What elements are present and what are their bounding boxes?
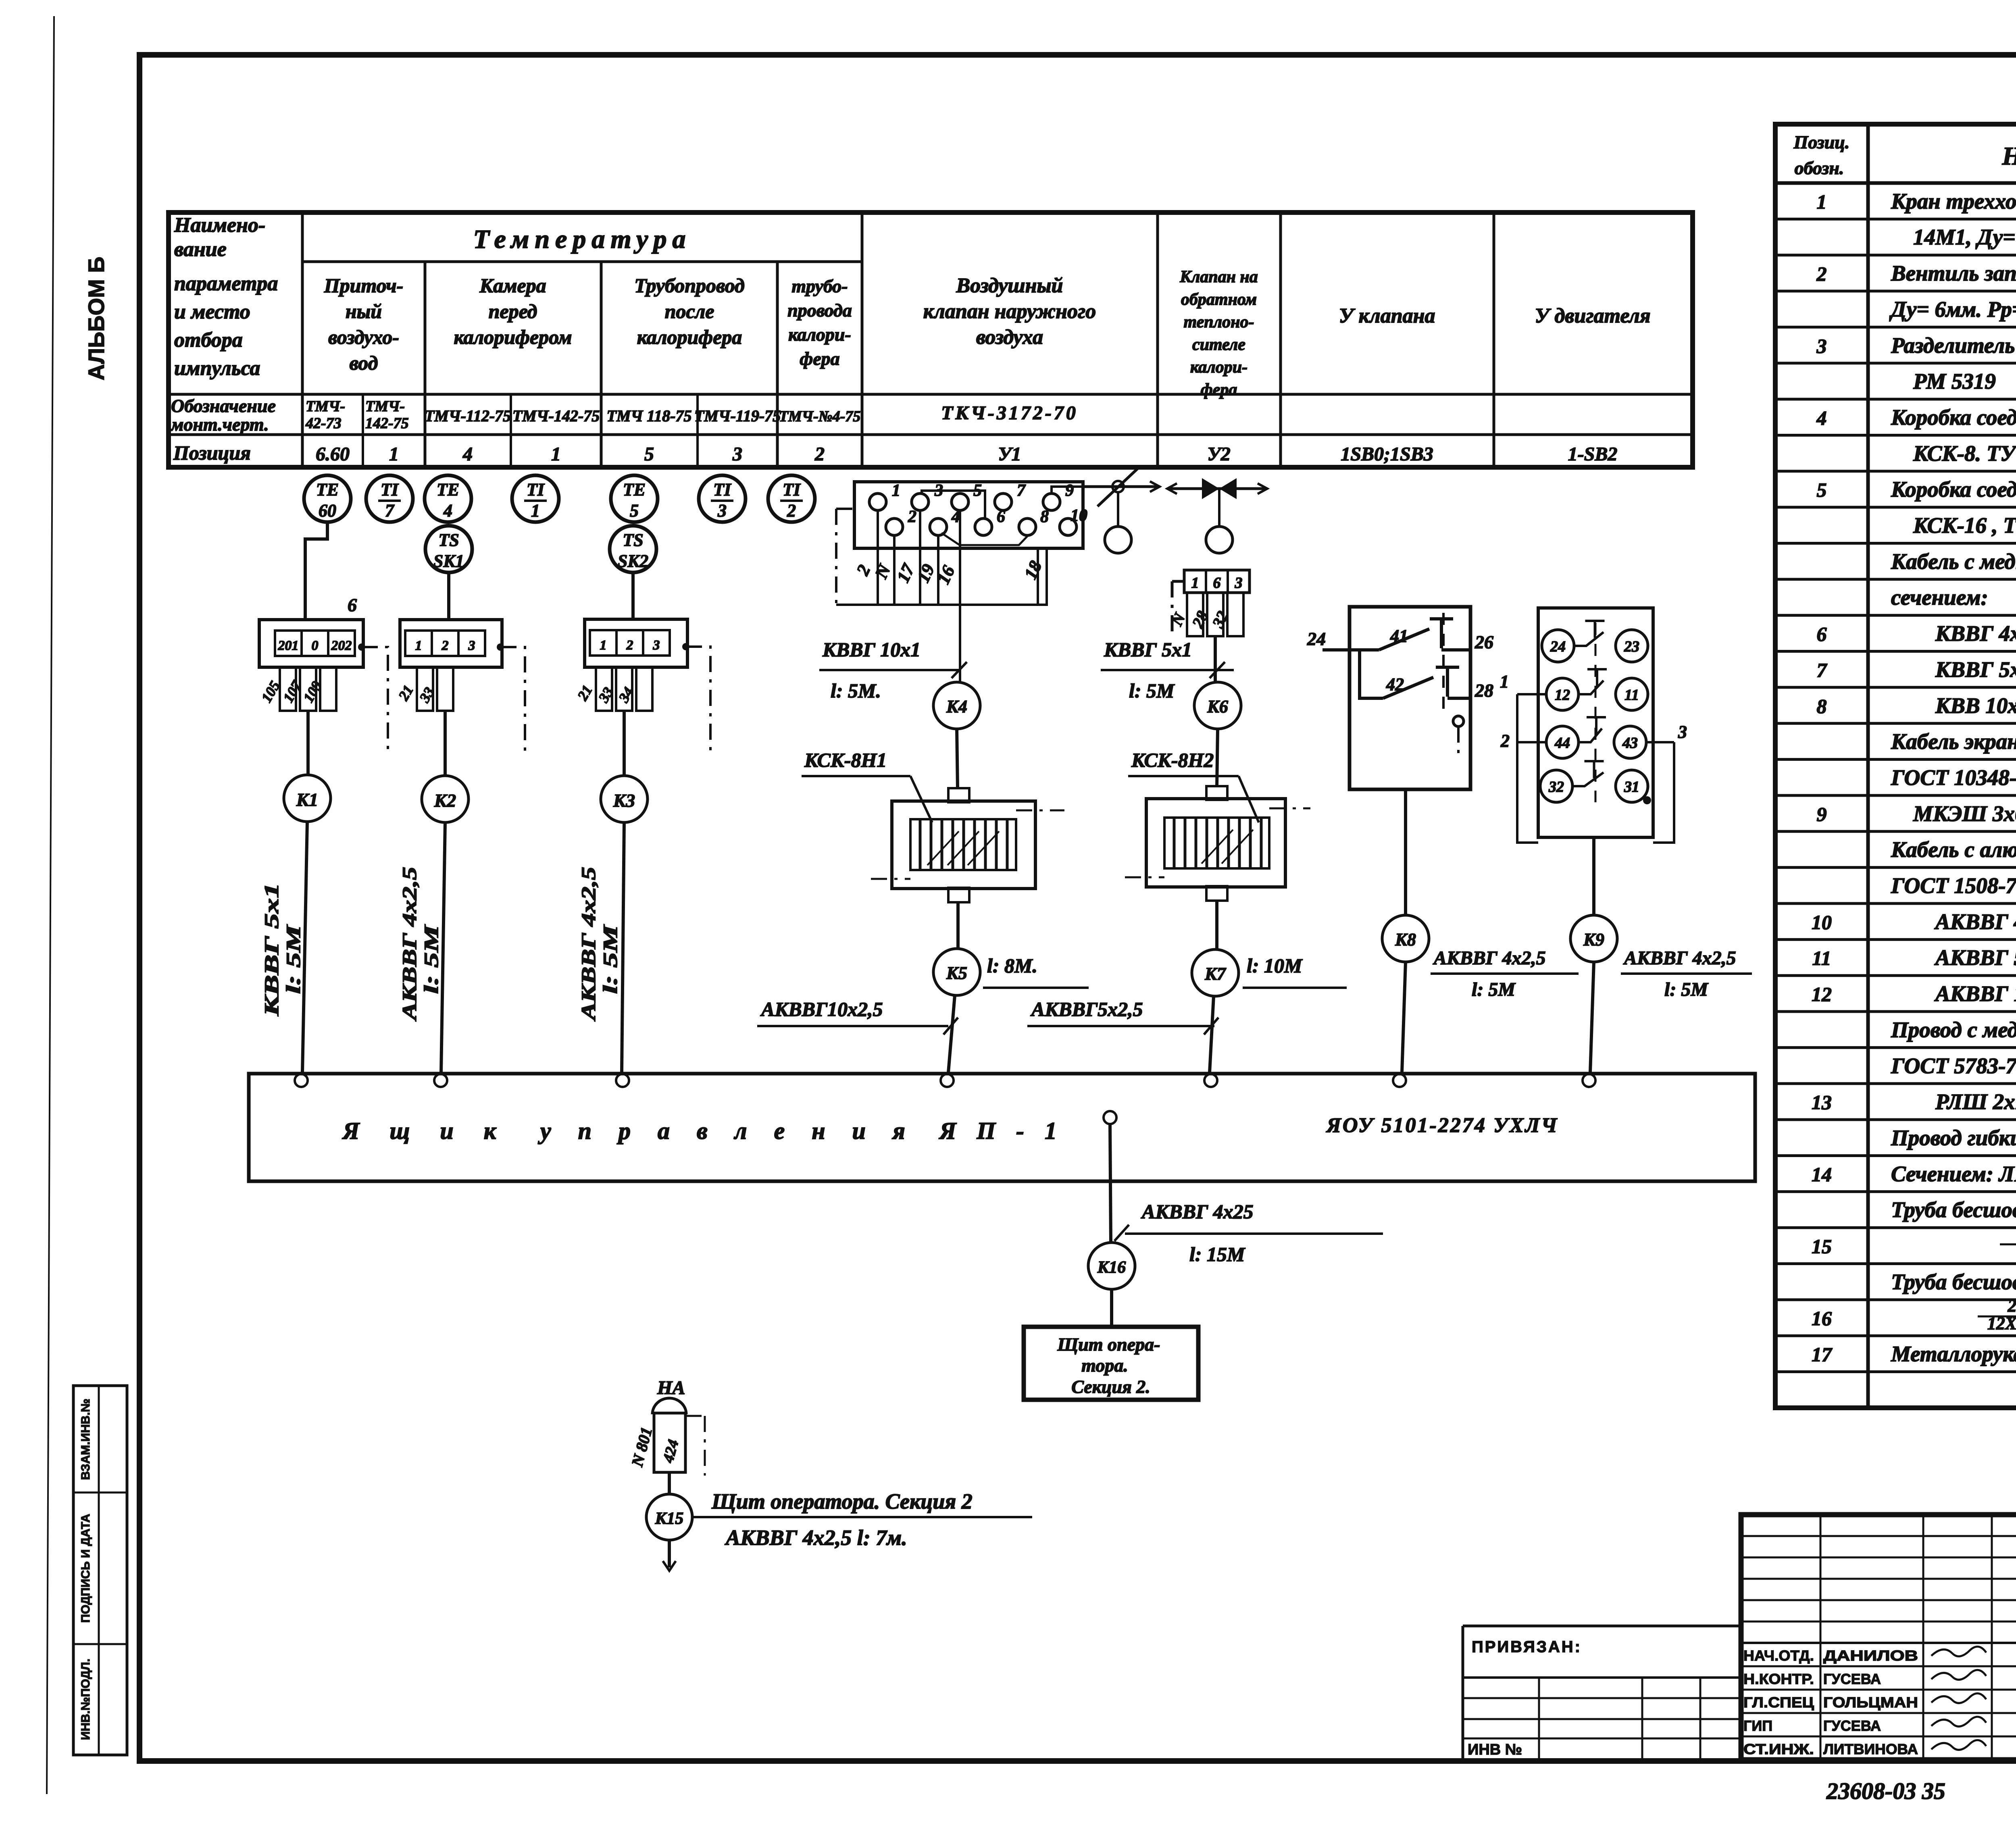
svg-text:8: 8 [1040, 508, 1049, 526]
svg-text:3: 3 [1816, 335, 1827, 357]
svg-text:2: 2 [787, 501, 796, 520]
svg-text:4: 4 [951, 508, 960, 526]
svg-text:3: 3 [1678, 722, 1687, 742]
svg-text:фера: фера [1201, 381, 1237, 399]
svg-text:Температура: Температура [473, 225, 691, 254]
svg-text:6: 6 [348, 595, 357, 615]
svg-text:Труба бесшовная ГОСТ: Труба бесшовная ГОСТ [1891, 1197, 2016, 1222]
svg-text:ТI: ТI [381, 480, 399, 500]
svg-text:сителе: сителе [1192, 335, 1245, 354]
svg-text:ТI: ТI [783, 480, 801, 500]
svg-text:обозн.: обозн. [1795, 158, 1844, 178]
svg-text:11: 11 [1624, 687, 1639, 704]
svg-text:К3: К3 [613, 790, 635, 811]
svg-text:13: 13 [1812, 1091, 1832, 1114]
svg-text:АКВВГ 4х2,5: АКВВГ 4х2,5 [1433, 947, 1546, 969]
svg-text:Провод с медными жилами,: Провод с медными жилами, [1891, 1017, 2016, 1042]
svg-text:ТМЧ-№4-75: ТМЧ-№4-75 [779, 408, 861, 425]
svg-text:У двигателя: У двигателя [1535, 304, 1650, 327]
svg-text:43: 43 [1622, 735, 1638, 751]
svg-text:7: 7 [385, 501, 395, 520]
svg-text:калорифера: калорифера [637, 326, 742, 348]
svg-text:АКВВГ 4х2,5: АКВВГ 4х2,5 [398, 867, 421, 1022]
svg-text:Металлорукав Р3-Ц-Х29: Металлорукав Р3-Ц-Х29 [1891, 1342, 2016, 1366]
svg-text:l: 10М: l: 10М [1247, 954, 1303, 977]
svg-text:КВВГ 5х1: КВВГ 5х1 [260, 883, 283, 1017]
svg-text:РЛШ 2х1 кв.мм.: РЛШ 2х1 кв.мм. [1935, 1089, 2016, 1114]
svg-text:Я П - 1: Я П - 1 [939, 1118, 1064, 1144]
svg-text:ТКЧ-3172-70: ТКЧ-3172-70 [941, 402, 1078, 424]
svg-text:Я щ и к: Я щ и к [342, 1118, 508, 1144]
svg-text:ТЕ: ТЕ [437, 480, 459, 500]
svg-text:1: 1 [415, 638, 422, 653]
svg-text:КВВГ 5х1 кв.мм.: КВВГ 5х1 кв.мм. [1935, 657, 2016, 682]
svg-text:1SВ0;1SВ3: 1SВ0;1SВ3 [1341, 443, 1433, 465]
svg-text:9: 9 [1817, 803, 1827, 825]
svg-text:ный: ный [346, 300, 382, 323]
svg-text:Приточ-: Приточ- [324, 274, 404, 297]
svg-text:ВЗАМ.ИНВ.№: ВЗАМ.ИНВ.№ [79, 1399, 92, 1480]
svg-text:Труба бесшовная ГОСТ 9941-81: Труба бесшовная ГОСТ 9941-81 [1891, 1270, 2016, 1294]
svg-text:7: 7 [1017, 481, 1026, 500]
svg-text:Воздушный: Воздушный [956, 274, 1063, 297]
svg-text:АКВВГ5х2,5: АКВВГ5х2,5 [1030, 998, 1143, 1020]
svg-text:ТМЧ-: ТМЧ- [306, 398, 345, 415]
svg-text:ПРИВЯЗАН:: ПРИВЯЗАН: [1472, 1638, 1582, 1656]
svg-text:К2: К2 [434, 790, 456, 811]
svg-text:Кабель с алюминиевыми жилами: Кабель с алюминиевыми жилами [1891, 837, 2016, 862]
svg-text:ГОСТ 1508-78Е, сечением:: ГОСТ 1508-78Е, сечением: [1891, 873, 2016, 898]
svg-text:вание: вание [174, 238, 227, 261]
svg-text:ГУСЕВА: ГУСЕВА [1823, 1717, 1881, 1734]
svg-text:l: 8М.: l: 8М. [987, 954, 1037, 977]
svg-text:сечением:: сечением: [1891, 585, 1988, 610]
svg-text:провода: провода [787, 300, 852, 321]
svg-text:К4: К4 [946, 697, 967, 716]
svg-text:l: 5М: l: 5М [1472, 979, 1516, 1000]
svg-text:Обозначение: Обозначение [171, 395, 276, 416]
svg-text:ТS: ТS [623, 530, 643, 550]
svg-text:2: 2 [1500, 731, 1510, 751]
svg-text:АЛЬБОМ Б: АЛЬБОМ Б [83, 257, 109, 381]
svg-text:44: 44 [1554, 735, 1570, 751]
svg-text:КСК-8Н2: КСК-8Н2 [1131, 749, 1214, 771]
svg-text:5: 5 [630, 501, 639, 520]
svg-text:КСК-8Н1: КСК-8Н1 [804, 749, 887, 771]
svg-text:К7: К7 [1204, 964, 1227, 984]
svg-text:4: 4 [443, 501, 452, 520]
svg-text:АКВВГ 10х2,5 кв.мм.: АКВВГ 10х2,5 кв.мм. [1934, 981, 2016, 1006]
svg-text:3: 3 [1235, 575, 1243, 591]
svg-text:ПОДПИСЬ И ДАТА: ПОДПИСЬ И ДАТА [79, 1514, 92, 1623]
svg-text:ТМЧ-142-75: ТМЧ-142-75 [512, 407, 600, 425]
svg-text:СТ.ИНЖ.: СТ.ИНЖ. [1743, 1741, 1814, 1757]
svg-text:Щит опера-: Щит опера- [1057, 1334, 1160, 1355]
svg-text:воздухо-: воздухо- [328, 326, 399, 348]
svg-text:Наимено-: Наимено- [174, 214, 265, 237]
svg-text:2: 2 [814, 443, 825, 465]
svg-text:Разделитель мембранный: Разделитель мембранный [1891, 333, 2016, 358]
svg-text:Позиц.: Позиц. [1793, 132, 1850, 152]
svg-text:2: 2 [626, 638, 633, 653]
svg-text:142-75: 142-75 [365, 415, 409, 432]
svg-text:АКВВГ 4х2,5 l: 7м.: АКВВГ 4х2,5 l: 7м. [725, 1526, 907, 1550]
svg-text:10: 10 [1070, 506, 1087, 525]
svg-text:6: 6 [1213, 575, 1221, 591]
svg-text:Кабель с медной жилой,ГОСТ1508: Кабель с медной жилой,ГОСТ1508-78Е [1891, 549, 2016, 574]
svg-text:2: 2 [908, 508, 916, 526]
svg-text:SК1: SК1 [433, 551, 464, 571]
svg-text:ТЕ: ТЕ [316, 480, 339, 500]
svg-text:Клапан на: Клапан на [1179, 268, 1258, 286]
svg-text:К6: К6 [1207, 697, 1228, 716]
svg-text:К16: К16 [1097, 1258, 1126, 1277]
svg-text:параметра: параметра [174, 272, 278, 295]
svg-text:ТI: ТI [527, 480, 545, 500]
svg-text:3: 3 [653, 638, 660, 653]
svg-text:23608-03 35: 23608-03 35 [1826, 1778, 1945, 1804]
svg-text:К8: К8 [1395, 930, 1416, 949]
svg-text:26: 26 [1475, 632, 1493, 652]
svg-text:3: 3 [468, 638, 475, 653]
svg-text:6: 6 [1817, 623, 1827, 645]
svg-text:Коробка соединительная: Коробка соединительная [1891, 405, 2016, 429]
svg-text:32: 32 [1548, 778, 1564, 795]
svg-text:КВВ 10х1 кв.мм.: КВВ 10х1 кв.мм. [1935, 693, 2016, 718]
svg-text:1: 1 [551, 443, 561, 465]
svg-text:4: 4 [1816, 406, 1827, 429]
svg-text:АКВВГ 4х2,5: АКВВГ 4х2,5 [577, 867, 600, 1022]
svg-text:l: 5М: l: 5М [1129, 679, 1175, 702]
svg-text:2: 2 [442, 638, 449, 653]
svg-text:28: 28 [1475, 680, 1493, 701]
svg-text:42: 42 [1386, 674, 1404, 694]
svg-text:l: 5М: l: 5М [1664, 979, 1709, 1000]
svg-text:тора.: тора. [1081, 1355, 1128, 1376]
svg-text:ГУСЕВА: ГУСЕВА [1823, 1671, 1881, 1687]
svg-text:ТМЧ-112-75: ТМЧ-112-75 [425, 407, 511, 425]
svg-text:25х3,5: 25х3,5 [2008, 1296, 2016, 1316]
svg-text:трубо-: трубо- [791, 276, 848, 296]
svg-text:1: 1 [1191, 575, 1199, 591]
svg-text:3: 3 [732, 443, 742, 465]
svg-text:ТМЧ 118-75: ТМЧ 118-75 [606, 407, 691, 425]
svg-text:4: 4 [462, 443, 473, 465]
svg-text:24: 24 [1550, 638, 1566, 655]
svg-text:12: 12 [1812, 983, 1832, 1005]
svg-text:ТМЧ-: ТМЧ- [365, 398, 405, 415]
svg-text:ТЕ: ТЕ [623, 480, 646, 500]
svg-text:К1: К1 [296, 789, 318, 810]
svg-text:17: 17 [1812, 1343, 1833, 1366]
svg-text:Кабель экранированный: Кабель экранированный [1891, 729, 2016, 754]
svg-text:5: 5 [644, 443, 654, 465]
svg-text:клапан наружного: клапан наружного [923, 300, 1096, 323]
svg-text:Камера: Камера [479, 274, 546, 297]
svg-text:60: 60 [319, 501, 336, 520]
svg-text:14: 14 [1812, 1163, 1832, 1186]
svg-text:ТМЧ-119-75: ТМЧ-119-75 [694, 407, 781, 425]
svg-text:Кран трехходовой муфтовый: Кран трехходовой муфтовый [1891, 189, 2016, 213]
svg-text:8: 8 [1817, 695, 1827, 717]
svg-text:вод: вод [350, 352, 378, 374]
svg-text:ГОСТ 10348- 80 сечением:: ГОСТ 10348- 80 сечением: [1891, 765, 2016, 790]
svg-text:МКЭШ 3х0.75 кв.мм.: МКЭШ 3х0.75 кв.мм. [1913, 801, 2016, 826]
svg-text:ГИП: ГИП [1743, 1717, 1772, 1734]
svg-text:6: 6 [997, 508, 1005, 526]
svg-text:У1: У1 [998, 443, 1021, 465]
svg-text:0: 0 [312, 638, 319, 653]
svg-text:Провод гибкий ГОСТ 20520-80: Провод гибкий ГОСТ 20520-80 [1891, 1125, 2016, 1150]
svg-text:ИНВ.№ПОДЛ.: ИНВ.№ПОДЛ. [79, 1659, 92, 1740]
svg-text:Сечением: ЛРГИ 1кв.мм.: Сечением: ЛРГИ 1кв.мм. [1891, 1161, 2016, 1186]
svg-text:SК2: SК2 [618, 551, 648, 571]
svg-text:l: 5М: l: 5М [420, 924, 442, 994]
svg-text:9: 9 [1065, 481, 1074, 500]
svg-text:и место: и место [174, 300, 250, 323]
svg-text:15: 15 [1812, 1235, 1832, 1258]
svg-text:Коробка соединительная: Коробка соединительная [1891, 477, 2016, 502]
svg-text:АКВВГ 4х25: АКВВГ 4х25 [1141, 1200, 1254, 1223]
svg-text:42-73: 42-73 [305, 415, 342, 432]
svg-text:КСК-8. ТУ 36.1753-75: КСК-8. ТУ 36.1753-75 [1913, 441, 2016, 466]
svg-text:1: 1 [389, 443, 399, 465]
svg-text:ЯОУ 5101-2274 УХЛЧ: ЯОУ 5101-2274 УХЛЧ [1326, 1114, 1558, 1137]
svg-text:5: 5 [1817, 479, 1827, 501]
svg-text:Позиция: Позиция [173, 441, 251, 464]
svg-text:ГОСТ 5783-79. Сечением:: ГОСТ 5783-79. Сечением: [1891, 1053, 2016, 1078]
svg-text:КСК-16 , ТУ 36.1753-75: КСК-16 , ТУ 36.1753-75 [1913, 513, 2016, 538]
svg-text:l: 5М.: l: 5М. [831, 679, 881, 702]
svg-text:калори-: калори- [1190, 358, 1248, 377]
svg-text:l: 5М: l: 5М [599, 924, 621, 994]
svg-text:калори-: калори- [788, 324, 851, 345]
svg-text:24: 24 [1307, 629, 1326, 649]
svg-text:31: 31 [1624, 778, 1639, 795]
svg-text:воздуха: воздуха [976, 326, 1043, 349]
svg-text:7: 7 [1817, 659, 1828, 681]
svg-text:202: 202 [331, 638, 352, 653]
svg-text:1: 1 [531, 501, 540, 520]
svg-text:НА: НА [657, 1377, 685, 1399]
svg-text:импульса: импульса [174, 357, 260, 380]
svg-text:23: 23 [1624, 638, 1639, 655]
svg-text:КВВГ 5х1: КВВГ 5х1 [1104, 638, 1192, 661]
svg-text:1-SВ2: 1-SВ2 [1568, 443, 1618, 465]
svg-text:ГОЛЬЦМАН: ГОЛЬЦМАН [1823, 1694, 1918, 1711]
svg-text:Трубопровод: Трубопровод [634, 274, 745, 297]
svg-text:КВВГ 10х1: КВВГ 10х1 [822, 638, 921, 661]
svg-text:16: 16 [1812, 1307, 1832, 1330]
svg-text:у п р а в л е н и я: у п р а в л е н и я [538, 1118, 916, 1144]
svg-text:ДАНИЛОВ: ДАНИЛОВ [1823, 1647, 1918, 1664]
svg-text:41: 41 [1390, 626, 1408, 646]
svg-text:3: 3 [717, 501, 727, 520]
svg-text:1: 1 [600, 638, 607, 653]
svg-text:АКВВГ10х2,5: АКВВГ10х2,5 [760, 998, 883, 1020]
svg-text:2: 2 [1816, 262, 1827, 285]
svg-text:1: 1 [1817, 190, 1827, 213]
svg-text:фера: фера [800, 348, 839, 369]
svg-text:теплоно-: теплоно- [1184, 313, 1254, 331]
svg-text:после: после [665, 300, 714, 323]
svg-text:6.60: 6.60 [316, 443, 350, 465]
svg-text:НАЧ.ОТД.: НАЧ.ОТД. [1743, 1647, 1814, 1664]
svg-text:калорифером: калорифером [454, 326, 572, 348]
svg-text:монт.черт.: монт.черт. [170, 414, 269, 435]
svg-text:11: 11 [1812, 947, 1831, 970]
svg-text:К15: К15 [655, 1509, 684, 1528]
svg-text:1: 1 [892, 481, 900, 500]
svg-text:10: 10 [1812, 911, 1832, 933]
svg-text:У2: У2 [1207, 443, 1230, 465]
svg-text:перед: перед [489, 300, 537, 323]
svg-text:12: 12 [1555, 687, 1570, 704]
svg-text:ТS: ТS [438, 530, 459, 550]
svg-text:АКВВГ 4х2,5: АКВВГ 4х2,5 [1623, 947, 1736, 969]
svg-text:1: 1 [1500, 672, 1509, 691]
svg-text:Н.КОНТР.: Н.КОНТР. [1743, 1671, 1814, 1687]
svg-text:Вентиль запорный муфтовый: Вентиль запорный муфтовый [1891, 261, 2016, 285]
svg-text:отбора: отбора [174, 329, 243, 352]
svg-text:РМ 5319: РМ 5319 [1913, 369, 1996, 393]
svg-text:ИНВ №: ИНВ № [1468, 1741, 1522, 1758]
svg-text:КВВГ 4х1 кв.мм.: КВВГ 4х1 кв.мм. [1935, 621, 2016, 646]
svg-text:Секция 2.: Секция 2. [1071, 1376, 1150, 1397]
svg-text:К9: К9 [1583, 930, 1604, 949]
svg-text:l: 15М: l: 15М [1189, 1243, 1245, 1266]
svg-text:Ду= 6мм. Рр=25кГс/см²; 15с 138: Ду= 6мм. Рр=25кГс/см²; 15с 138к1 [1889, 297, 2016, 321]
svg-text:ГЛ.СПЕЦ: ГЛ.СПЕЦ [1743, 1694, 1814, 1711]
svg-text:14М1, Ду= 15 мм.: 14М1, Ду= 15 мм. [1913, 225, 2016, 250]
svg-text:ЛИТВИНОВА: ЛИТВИНОВА [1823, 1741, 1918, 1757]
svg-text:Наименование: Наименование [2002, 142, 2016, 170]
svg-text:АКВВГ 4х2,5 кв.мм.: АКВВГ 4х2,5 кв.мм. [1934, 909, 2016, 934]
svg-text:АКВВГ 5х2,5 кв.мм.: АКВВГ 5х2,5 кв.мм. [1934, 945, 2016, 970]
svg-text:У клапана: У клапана [1339, 304, 1435, 327]
svg-text:201: 201 [278, 638, 299, 653]
svg-text:обратном: обратном [1181, 290, 1257, 309]
svg-text:ТI: ТI [713, 480, 732, 500]
svg-text:Щит оператора. Секция 2: Щит оператора. Секция 2 [711, 1489, 973, 1513]
svg-text:К5: К5 [946, 963, 967, 983]
svg-text:l: 5М: l: 5М [282, 924, 304, 994]
